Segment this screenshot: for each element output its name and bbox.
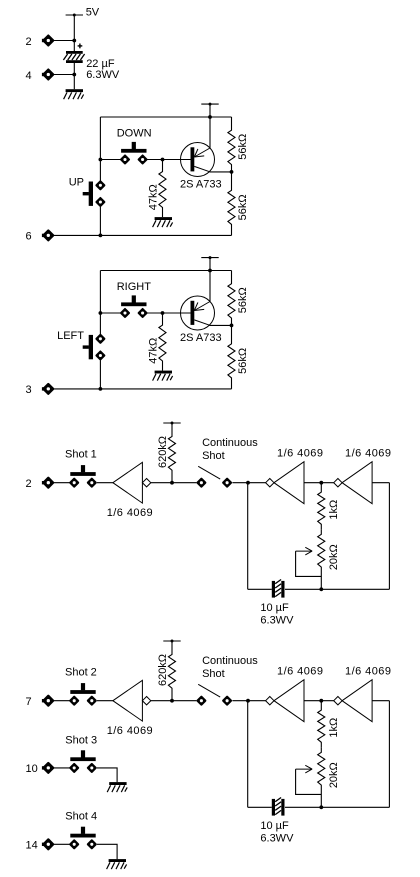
wire inverter2 to inverter3 (Shot1) [304, 482, 334, 484]
svg-text:2: 2 [26, 478, 32, 490]
svg-text:Shot 1: Shot 1 [65, 448, 97, 460]
wire pin14 to button [54, 843, 70, 845]
junction pin2/rail [72, 39, 76, 43]
svg-text:1kΩ: 1kΩ [328, 718, 340, 738]
capacitor C1 22uF electrolytic [63, 51, 84, 63]
svg-text:1kΩ: 1kΩ [328, 500, 340, 520]
svg-text:6.3WV: 6.3WV [86, 69, 120, 81]
wire pin6 row [54, 234, 232, 236]
wire collector (UP/DOWN) [210, 171, 232, 173]
wire pin10 to button [54, 767, 70, 769]
pin 2 connector (Shot1) [42, 478, 53, 488]
svg-text:6.3WV: 6.3WV [260, 832, 294, 844]
wire C1 to pin4 row [73, 63, 75, 89]
svg-text:LEFT: LEFT [57, 330, 84, 342]
wire inverter3 out (Shot1) [372, 482, 389, 484]
svg-text:Continuous: Continuous [202, 655, 258, 667]
svg-text:22 µF: 22 µF [86, 58, 115, 70]
wire collector (LEFT/RIGHT) [210, 324, 232, 326]
svg-text:10 µF: 10 µF [260, 820, 289, 832]
pushbutton Shot 2 [70, 683, 95, 705]
svg-text:10: 10 [26, 763, 38, 775]
wire rail to RIGHT button [100, 312, 120, 314]
wire right rail (Shot2) [388, 701, 390, 808]
wire bottom right (Shot1) [285, 588, 389, 590]
wire left rail (Shot1) [247, 483, 249, 590]
wire Shot 4 to ground [97, 844, 117, 859]
ground below 47k (LEFT/RIGHT) [153, 371, 173, 381]
resistor 56k lower (UP/DOWN) [228, 172, 235, 236]
resistor 620k (Shot2) [168, 641, 175, 701]
svg-text:Shot 4: Shot 4 [65, 811, 97, 823]
wire DOWN button to base [147, 159, 191, 161]
resistor 56k upper (LEFT/RIGHT) [228, 271, 235, 326]
svg-text:47kΩ: 47kΩ [148, 338, 160, 364]
inverter U3 1/6 4069 (Shot1) [334, 462, 372, 504]
transistor Q 2SA733 (LEFT/RIGHT) [181, 296, 215, 330]
svg-text:2: 2 [26, 36, 32, 48]
pin 4 connector [42, 70, 53, 80]
inverter U3 1/6 4069 (Shot2) [334, 680, 372, 722]
svg-text:1/6 4069: 1/6 4069 [107, 725, 153, 737]
svg-text:1/6 4069: 1/6 4069 [277, 666, 323, 678]
wire pin4 to rail [54, 74, 75, 76]
junction 5V/top rail (UP/DOWN) [208, 115, 212, 119]
wire inverter2 to inverter3 (Shot2) [304, 700, 334, 702]
svg-text:7: 7 [26, 696, 32, 708]
wire left rail lower (LEFT/RIGHT) [99, 360, 101, 389]
wire bottom left (Shot1) [248, 588, 272, 590]
pin 10 connector [42, 763, 53, 773]
resistor 56k lower (LEFT/RIGHT) [228, 325, 235, 389]
wire left rail upper (UP/DOWN) [99, 117, 101, 181]
resistor 56k upper (UP/DOWN) [228, 117, 235, 172]
junction 620k/row (Shot1) [170, 481, 174, 485]
wire bottom left (Shot2) [248, 806, 272, 808]
svg-text:20kΩ: 20kΩ [328, 544, 340, 570]
wire pin2 to rail [54, 40, 75, 42]
svg-text:56kΩ: 56kΩ [237, 194, 249, 220]
pushbutton Shot 3 [70, 750, 95, 772]
svg-text:UP: UP [69, 177, 84, 189]
pin 3 connector [42, 384, 53, 394]
switch Continuous Shot (Shot2) [198, 684, 232, 704]
junction feedback left (Shot2) [246, 699, 250, 703]
wire switch to inverter2 (Shot1) [232, 482, 265, 484]
pushbutton Shot 4 [70, 827, 95, 849]
svg-text:5V: 5V [86, 6, 100, 18]
inverter U2 1/6 4069 (Shot1) [266, 462, 304, 504]
ground Shot 4 [107, 859, 127, 869]
wire 5V to transistor emitter (UP/DOWN) [209, 104, 211, 148]
ground Shot 3 [107, 782, 127, 792]
pin 14 connector [42, 840, 53, 850]
svg-text:14: 14 [26, 840, 38, 852]
svg-text:Shot 2: Shot 2 [65, 666, 97, 678]
wire 5V to transistor emitter (LEFT/RIGHT) [209, 258, 211, 302]
resistor 1k (Shot2) [318, 701, 325, 748]
wire pin to button (Shot1) [54, 482, 70, 484]
wire rail to DOWN button [100, 159, 120, 161]
wire left rail lower (UP/DOWN) [99, 207, 101, 236]
pin 2 connector [42, 36, 53, 46]
junction 1k/row (Shot2) [319, 699, 323, 703]
svg-text:620kΩ: 620kΩ [157, 654, 169, 686]
junction pin4/rail [72, 73, 76, 77]
svg-text:Shot: Shot [202, 450, 225, 462]
svg-text:3: 3 [26, 384, 32, 396]
svg-text:2S A733: 2S A733 [180, 178, 222, 190]
capacitor C1 plus sign [78, 44, 83, 49]
resistor 1k (Shot1) [318, 483, 325, 530]
wire inverter3 out (Shot2) [372, 700, 389, 702]
wire 5V rail vertical [73, 15, 75, 51]
transistor Q 2SA733 (UP/DOWN) [181, 143, 215, 177]
svg-text:6: 6 [26, 231, 32, 243]
svg-text:4: 4 [26, 70, 32, 82]
power 5V tick (LEFT/RIGHT) [201, 256, 218, 259]
inverter U1 1/6 4069 (Shot2) [113, 680, 151, 721]
pushbutton Shot 1 [70, 465, 95, 487]
svg-text:6.3WV: 6.3WV [260, 614, 294, 626]
pushbutton RIGHT [121, 295, 146, 317]
ground below C1 [64, 89, 84, 99]
svg-text:1/6 4069: 1/6 4069 [107, 507, 153, 519]
wire bottom right (Shot2) [285, 806, 389, 808]
svg-text:56kΩ: 56kΩ [237, 348, 249, 374]
power 5V tick 620k (Shot2) [163, 640, 180, 643]
svg-text:20kΩ: 20kΩ [328, 762, 340, 788]
resistor 47k (LEFT/RIGHT) [159, 313, 166, 371]
junction rail/bottom (LEFT/RIGHT) [99, 387, 103, 391]
wire switch to inverter2 (Shot2) [232, 700, 265, 702]
wire Shot 3 to ground [97, 768, 117, 782]
svg-text:1/6 4069: 1/6 4069 [345, 448, 391, 460]
junction rail/RIGHT row [99, 311, 103, 315]
junction 1k/row (Shot1) [319, 481, 323, 485]
svg-text:RIGHT: RIGHT [117, 281, 152, 293]
wire inverter1 to switch (Shot2) [151, 700, 197, 702]
pushbutton LEFT [83, 335, 105, 360]
svg-text:1/6 4069: 1/6 4069 [345, 666, 391, 678]
potentiometer 20k (Shot1) [318, 529, 325, 589]
svg-text:47kΩ: 47kΩ [148, 184, 160, 210]
svg-text:Shot 3: Shot 3 [65, 734, 97, 746]
wire top rail (LEFT/RIGHT) [100, 270, 231, 272]
wire button to inverter1 (Shot1) [97, 482, 113, 484]
junction pot/bottom (Shot1) [319, 587, 323, 591]
wire right rail (Shot1) [388, 483, 390, 590]
svg-text:620kΩ: 620kΩ [157, 436, 169, 468]
junction 5V/top rail (LEFT/RIGHT) [208, 269, 212, 273]
junction base row/47k (LEFT/RIGHT) [161, 311, 165, 315]
power 5V tick (UP/DOWN) [201, 103, 218, 106]
svg-text:Continuous: Continuous [202, 437, 258, 449]
wire top rail (UP/DOWN) [100, 116, 231, 118]
junction pot/bottom (Shot2) [319, 805, 323, 809]
wire pin3 row [54, 388, 232, 390]
junction base row/47k (UP/DOWN) [161, 158, 165, 162]
junction 620k/row (Shot2) [170, 699, 174, 703]
wire left rail upper (LEFT/RIGHT) [99, 271, 101, 335]
junction rail/bottom (UP/DOWN) [99, 234, 103, 238]
svg-text:DOWN: DOWN [117, 128, 152, 140]
potentiometer 20k (Shot2) [318, 747, 325, 807]
pot wiper arrow (Shot2) [296, 765, 313, 773]
junction feedback left (Shot1) [246, 481, 250, 485]
svg-text:Shot: Shot [202, 668, 225, 680]
power 5V tick 620k (Shot1) [163, 422, 180, 425]
wire left rail (Shot2) [247, 701, 249, 808]
svg-text:56kΩ: 56kΩ [237, 287, 249, 313]
junction collector/56k (LEFT/RIGHT) [230, 324, 234, 328]
pin 7 connector (Shot2) [42, 696, 53, 706]
wire button to inverter1 (Shot2) [97, 700, 113, 702]
wire inverter1 to switch (Shot1) [151, 482, 197, 484]
ground below 47k (UP/DOWN) [153, 217, 173, 227]
svg-text:10 µF: 10 µF [260, 602, 289, 614]
capacitor 10uF (Shot2) [272, 798, 285, 816]
pushbutton DOWN [121, 142, 146, 164]
svg-text:2S A733: 2S A733 [180, 332, 222, 344]
svg-text:1/6 4069: 1/6 4069 [277, 448, 323, 460]
inverter U2 1/6 4069 (Shot2) [266, 680, 304, 722]
capacitor 10uF (Shot1) [272, 580, 285, 598]
junction rail/DOWN row [99, 158, 103, 162]
resistor 620k (Shot1) [168, 423, 175, 483]
wire pin to button (Shot2) [54, 700, 70, 702]
resistor 47k (UP/DOWN) [159, 160, 166, 218]
pin 6 connector [42, 231, 53, 241]
pot wiper arrow (Shot1) [296, 547, 313, 555]
power 5V tick [66, 14, 83, 17]
wire pot wiper to bottom (Shot1) [296, 551, 322, 576]
junction collector/56k (UP/DOWN) [230, 170, 234, 174]
pushbutton UP [83, 181, 105, 206]
wire RIGHT button to base [147, 312, 191, 314]
inverter U1 1/6 4069 (Shot1) [113, 462, 151, 503]
wire pot wiper to bottom (Shot2) [296, 769, 322, 794]
svg-text:56kΩ: 56kΩ [237, 134, 249, 160]
switch Continuous Shot (Shot1) [198, 466, 232, 486]
